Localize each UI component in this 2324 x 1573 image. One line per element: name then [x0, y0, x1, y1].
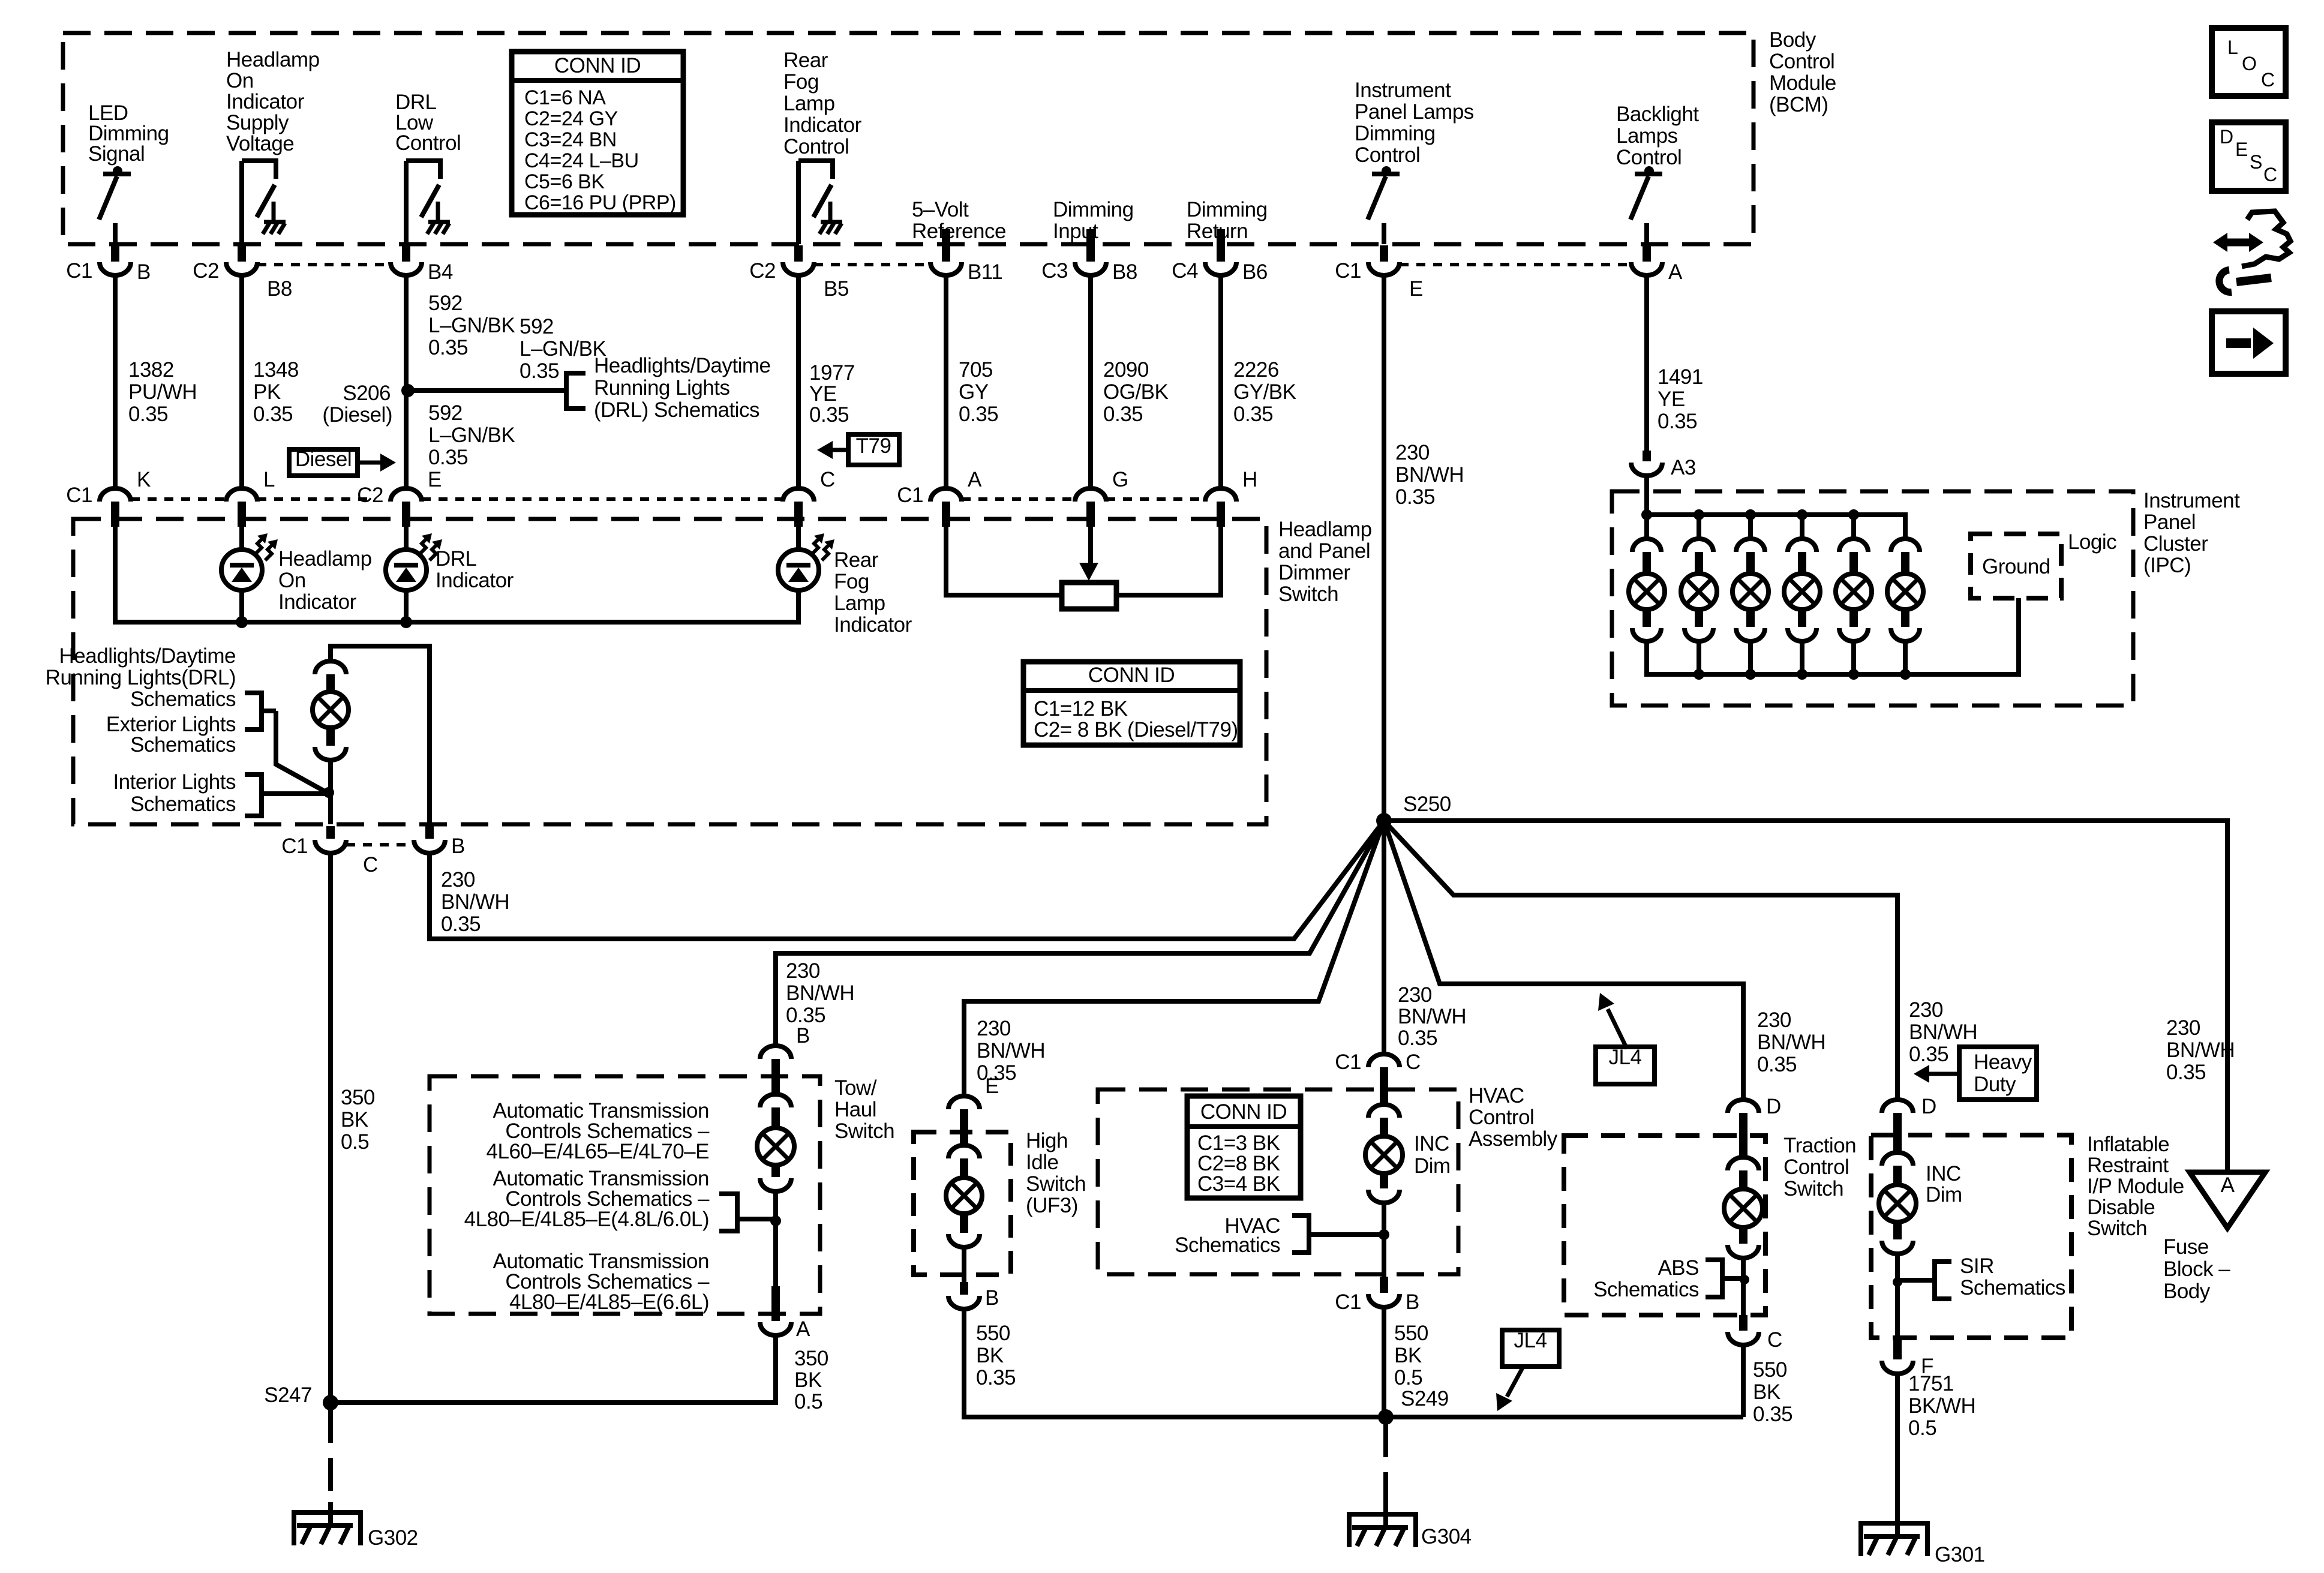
junction dot top bus: [1694, 509, 1704, 520]
svg-text:B4: B4: [428, 260, 453, 284]
wire to C: [1741, 1258, 1746, 1315]
svg-text:0.35: 0.35: [1909, 1043, 1948, 1066]
connector H: [1205, 488, 1236, 502]
connector G: [1075, 488, 1106, 502]
wire 350 BK 0.5 to S247: [328, 854, 333, 1403]
svg-text:H: H: [1242, 468, 1257, 491]
svg-text:B8: B8: [1112, 260, 1137, 284]
svg-text:B6: B6: [1242, 260, 1268, 284]
wire 230 BN/WH dimmer B to S250: [430, 821, 1384, 939]
junction dot top bus: [1797, 509, 1807, 520]
svg-text:Body: Body: [2163, 1280, 2211, 1303]
svg-text:E: E: [2235, 139, 2248, 160]
svg-text:Switch: Switch: [1026, 1172, 1086, 1196]
bracket SIR schematics: [1935, 1262, 1951, 1299]
svg-text:(BCM): (BCM): [1769, 93, 1828, 116]
IPC lamp column 1: [1644, 515, 1649, 539]
svg-text:C: C: [2261, 69, 2275, 91]
svg-text:B: B: [1406, 1290, 1419, 1314]
wire S206 to DRL schematics: [408, 388, 566, 393]
svg-text:Backlight: Backlight: [1616, 103, 1699, 126]
BCM output driver LED Dimming Signal: [103, 172, 131, 176]
svg-text:C1: C1: [897, 484, 923, 507]
wrench icon: [2236, 278, 2271, 282]
svg-text:Inflatable: Inflatable: [2087, 1133, 2169, 1156]
junction dot bottom bus: [1745, 669, 1756, 680]
wire A to S247 bus: [331, 1335, 776, 1403]
svg-text:BN/WH: BN/WH: [786, 981, 854, 1005]
junction dot top bus: [1745, 509, 1756, 520]
svg-text:2090: 2090: [1103, 358, 1149, 382]
traction lamp: [1724, 1189, 1762, 1227]
svg-text:Headlamp: Headlamp: [278, 547, 372, 571]
svg-text:HVAC: HVAC: [1469, 1084, 1524, 1107]
svg-text:D: D: [2220, 126, 2233, 148]
Heavy Duty callout: [1959, 1047, 2037, 1100]
Logic Ground dashed box: [1971, 534, 2061, 598]
svg-text:Control: Control: [1355, 143, 1420, 167]
connector C1-E: [1380, 245, 1388, 262]
wire S250 to fuse block: [1384, 821, 2227, 1172]
IR INC Dim lamp: [1879, 1185, 1916, 1222]
svg-text:Reference: Reference: [912, 220, 1006, 243]
svg-text:0.35: 0.35: [1658, 410, 1697, 433]
svg-text:S249: S249: [1401, 1387, 1449, 1410]
wire 5-volt ref col: [944, 275, 948, 488]
LED DRL Indicator: [404, 527, 409, 550]
svg-text:INC: INC: [1414, 1132, 1449, 1155]
svg-text:Body: Body: [1769, 28, 1816, 52]
svg-text:0.35: 0.35: [976, 1366, 1016, 1389]
svg-text:L: L: [2227, 37, 2238, 58]
connector B (high idle): [960, 1282, 968, 1295]
svg-text:C3=4 BK: C3=4 BK: [1197, 1172, 1280, 1196]
Headlamp and Panel Dimmer Switch dashed box: [73, 519, 1266, 824]
svg-text:592: 592: [428, 292, 463, 315]
Body Control Module (BCM) dashed box: [63, 33, 1753, 244]
svg-text:Lamps: Lamps: [1616, 124, 1678, 148]
Inflatable Restraint switch dashed box: [1871, 1135, 2071, 1338]
junction dot bottom bus: [1694, 669, 1704, 680]
wire to junction: [276, 711, 327, 792]
panel dimmer illumination lamp: [313, 692, 349, 728]
svg-text:Instrument: Instrument: [2143, 489, 2240, 512]
svg-text:0.35: 0.35: [520, 359, 559, 383]
connector C1-B (HVAC): [1380, 1277, 1388, 1293]
IPC top bus: [1647, 515, 1905, 539]
connector C1-C (dimmer out): [326, 826, 335, 839]
wire IP lamps dimming to S250: [1382, 275, 1386, 821]
svg-text:BN/WH: BN/WH: [977, 1039, 1045, 1062]
svg-text:BN/WH: BN/WH: [1909, 1020, 1977, 1044]
LED return bus: [115, 527, 798, 622]
svg-text:0.5: 0.5: [1908, 1416, 1936, 1440]
splice S206: [401, 384, 415, 397]
connector C1-B (LED dimming): [111, 245, 119, 262]
svg-text:0.35: 0.35: [253, 403, 293, 426]
svg-text:Dimming: Dimming: [1187, 198, 1268, 221]
svg-text:Schematics: Schematics: [1593, 1278, 1699, 1301]
junction dot top bus: [1641, 509, 1652, 520]
svg-text:B: B: [985, 1286, 999, 1310]
wire S250 to HVAC C: [1382, 821, 1386, 1054]
svg-text:BN/WH: BN/WH: [441, 890, 509, 914]
svg-text:Block –: Block –: [2163, 1257, 2230, 1281]
ground G301: [1858, 1521, 1863, 1556]
wire to B: [1382, 1203, 1386, 1277]
svg-text:YE: YE: [1658, 388, 1685, 411]
svg-text:C5=6 BK: C5=6 BK: [524, 170, 605, 193]
svg-text:0.35: 0.35: [1753, 1403, 1792, 1426]
connector C1-C (HVAC): [1368, 1054, 1400, 1067]
svg-text:C3: C3: [1041, 259, 1068, 283]
svg-text:CONN ID: CONN ID: [554, 54, 641, 77]
svg-text:C1=12 BK: C1=12 BK: [1034, 697, 1128, 721]
svg-text:0.35: 0.35: [1233, 403, 1273, 426]
dashed wire S247 to G302: [328, 1410, 333, 1507]
svg-text:Schematics: Schematics: [1175, 1233, 1280, 1257]
svg-text:G304: G304: [1421, 1525, 1472, 1548]
junction dot top bus: [1848, 509, 1859, 520]
svg-text:Rear: Rear: [783, 49, 828, 72]
dimmer rheostat wire right: [1116, 527, 1221, 595]
wire C to S249 bus: [1741, 1346, 1746, 1417]
junction dot: [236, 616, 248, 628]
ground symbol inside BCM at Rear Fog Lamp Indicator Control: [828, 202, 833, 221]
svg-text:C3=24 BN: C3=24 BN: [524, 128, 617, 151]
svg-text:Schematics: Schematics: [1960, 1276, 2065, 1299]
svg-text:Dimming: Dimming: [1355, 122, 1436, 145]
wire F to G301: [1895, 1374, 1900, 1513]
svg-text:Switch: Switch: [834, 1119, 894, 1143]
svg-text:Indicator: Indicator: [226, 90, 305, 113]
svg-text:0.35: 0.35: [809, 403, 849, 427]
svg-text:Assembly: Assembly: [1469, 1127, 1558, 1151]
svg-text:Fog: Fog: [834, 570, 869, 593]
svg-text:Running Lights: Running Lights: [594, 376, 730, 400]
svg-text:SIR: SIR: [1960, 1254, 1994, 1278]
BCM output driver Headlamp On Indicator Supply Voltage: [239, 161, 244, 244]
BCM output driver Instrument Panel Lamps Dimming Control: [1372, 172, 1400, 176]
high idle lamp: [946, 1178, 982, 1214]
svg-text:A: A: [1668, 260, 1683, 284]
svg-text:4L80–E/4L85–E(4.8L/6.0L): 4L80–E/4L85–E(4.8L/6.0L): [464, 1208, 709, 1231]
bracket DRL schematics: [566, 373, 585, 409]
svg-text:C: C: [820, 468, 835, 491]
wire B to S249: [1382, 1308, 1386, 1417]
inline connector: [1728, 1157, 1759, 1170]
svg-text:T79: T79: [856, 434, 891, 458]
svg-text:Voltage: Voltage: [226, 132, 294, 155]
LED Rear Fog Lamp Indicator: [796, 527, 801, 550]
Tow/Haul Switch dashed box: [430, 1076, 820, 1314]
svg-text:Indicator: Indicator: [278, 590, 357, 614]
svg-text:550: 550: [1394, 1322, 1428, 1345]
svg-text:(Diesel): (Diesel): [322, 403, 392, 427]
svg-text:Indicator: Indicator: [436, 569, 514, 592]
svg-text:Module: Module: [1769, 71, 1836, 95]
HVAC INC Dim lamp: [1365, 1136, 1403, 1173]
inline connector below panel lamp: [326, 728, 335, 746]
svg-text:B: B: [796, 1024, 810, 1047]
svg-text:S247: S247: [264, 1383, 312, 1407]
svg-text:E: E: [985, 1074, 999, 1098]
svg-text:230: 230: [1398, 983, 1432, 1007]
svg-text:L: L: [263, 468, 275, 491]
svg-text:1751: 1751: [1908, 1372, 1954, 1395]
DESC icon box: [2212, 122, 2286, 191]
connector B (tow/haul): [760, 1046, 791, 1059]
svg-text:0.35: 0.35: [128, 403, 168, 426]
inline connector: [948, 1145, 980, 1158]
wire lamp to C1-C: [328, 760, 333, 824]
double arrow icon: [2223, 239, 2253, 247]
svg-text:Indicator: Indicator: [834, 613, 912, 637]
connector B (dimmer out): [425, 826, 434, 839]
CONN ID table (HVAC): [1187, 1096, 1301, 1198]
wire A3 to IPC: [1644, 476, 1649, 515]
svg-text:GY: GY: [959, 380, 989, 404]
inline connector: [1739, 1227, 1747, 1244]
svg-text:G302: G302: [368, 1526, 418, 1550]
svg-text:BN/WH: BN/WH: [1757, 1031, 1825, 1054]
inline connector: [1368, 1104, 1400, 1118]
svg-text:C6=16 PU (PRP): C6=16 PU (PRP): [524, 191, 676, 214]
connector C2-E: [391, 488, 422, 502]
wire B to S249 bus: [964, 1310, 1743, 1417]
connector C4-B6: [1217, 229, 1225, 262]
bracket interior lights: [245, 775, 262, 816]
Diesel callout box: [289, 449, 358, 476]
svg-text:B: B: [137, 260, 151, 284]
svg-text:Cluster: Cluster: [2143, 532, 2208, 556]
svg-text:A: A: [796, 1317, 810, 1341]
svg-text:Haul: Haul: [834, 1098, 876, 1121]
svg-text:C1: C1: [66, 484, 92, 507]
svg-text:550: 550: [976, 1322, 1010, 1345]
svg-text:Ground: Ground: [1982, 555, 2050, 578]
inline connector: [760, 1094, 791, 1107]
svg-text:1348: 1348: [253, 358, 299, 382]
JL4 callout 2: [1502, 1330, 1559, 1367]
LED Headlamp On Indicator: [239, 527, 244, 550]
svg-text:D: D: [1921, 1095, 1936, 1118]
connector C1-K: [100, 488, 131, 502]
svg-text:C1: C1: [1335, 1050, 1361, 1074]
svg-text:Schematics: Schematics: [130, 688, 236, 711]
connector A3: [1643, 451, 1651, 461]
inline connector: [1882, 1152, 1913, 1166]
svg-text:Switch: Switch: [2087, 1217, 2147, 1240]
svg-text:C1: C1: [1335, 259, 1361, 283]
junction dot: [1740, 1275, 1749, 1284]
svg-text:Control: Control: [783, 135, 849, 158]
svg-text:Control: Control: [1469, 1106, 1534, 1129]
svg-text:YE: YE: [809, 382, 837, 406]
connector D (IR): [1882, 1100, 1913, 1113]
svg-text:PU/WH: PU/WH: [128, 380, 197, 404]
svg-text:C4: C4: [1172, 259, 1198, 283]
svg-text:E: E: [428, 468, 442, 491]
wire S250 to Inflatable Restraint D: [1384, 821, 1897, 1100]
svg-text:Restraint: Restraint: [2087, 1154, 2169, 1177]
dashed wire S249 to G304: [1383, 1424, 1388, 1507]
svg-text:Signal: Signal: [88, 142, 145, 166]
inline connector: [1893, 1222, 1902, 1239]
svg-text:B11: B11: [968, 260, 1002, 284]
svg-text:INC: INC: [1926, 1162, 1961, 1185]
svg-text:JL4: JL4: [1514, 1329, 1547, 1352]
panel lamp feed inverted-U: [331, 646, 430, 824]
svg-text:0.5: 0.5: [341, 1130, 369, 1154]
svg-text:B8: B8: [267, 277, 292, 301]
wire S250 to Traction D: [1384, 821, 1743, 1100]
svg-text:C1: C1: [1335, 1290, 1361, 1314]
svg-text:592: 592: [428, 401, 463, 425]
connector D (traction): [1728, 1100, 1759, 1113]
wire LED dimming signal col: [113, 275, 118, 488]
svg-text:Traction: Traction: [1783, 1134, 1856, 1157]
connector C1-A: [930, 488, 962, 502]
svg-text:0.35: 0.35: [428, 336, 468, 359]
svg-text:230: 230: [441, 868, 475, 891]
junction dot bottom bus: [1900, 669, 1911, 680]
tow/haul lamp: [757, 1128, 794, 1165]
svg-text:Dim: Dim: [1926, 1183, 1962, 1206]
svg-text:C: C: [363, 853, 378, 876]
connector A (backlight): [1643, 245, 1651, 262]
svg-text:0.35: 0.35: [959, 403, 998, 426]
wire to F: [1895, 1254, 1900, 1338]
connector E (high idle): [948, 1096, 980, 1109]
inline connector: [1380, 1173, 1388, 1188]
svg-text:BK: BK: [1394, 1344, 1422, 1367]
LOC icon box: [2212, 28, 2286, 96]
svg-text:0.35: 0.35: [428, 446, 468, 469]
connector B11: [942, 229, 950, 262]
dimmer rheostat resistor: [1062, 583, 1116, 609]
svg-text:Lamp: Lamp: [834, 592, 885, 615]
svg-text:Tow/: Tow/: [834, 1076, 877, 1100]
HVAC Control Assembly dashed box: [1098, 1089, 1458, 1274]
svg-text:On: On: [278, 569, 306, 592]
svg-text:2226: 2226: [1233, 358, 1279, 382]
High Idle Switch dashed box: [914, 1132, 1011, 1275]
svg-text:C: C: [2263, 164, 2277, 185]
svg-text:Dimmer: Dimmer: [1278, 561, 1350, 584]
inline connector above panel lamp: [315, 661, 346, 674]
IPC lamp column 5: [1851, 515, 1856, 539]
svg-text:230: 230: [1909, 998, 1943, 1022]
svg-text:DRL: DRL: [436, 547, 477, 571]
connector L: [226, 488, 257, 502]
splice S247: [323, 1395, 338, 1410]
svg-text:C2: C2: [749, 259, 776, 283]
svg-text:PK: PK: [253, 380, 281, 404]
svg-text:C2= 8 BK (Diesel/T79): C2= 8 BK (Diesel/T79): [1034, 718, 1238, 742]
svg-text:L–GN/BK: L–GN/BK: [428, 424, 515, 447]
ground G302: [292, 1511, 296, 1545]
svg-text:Rear: Rear: [834, 548, 879, 572]
T79 callout box: [848, 434, 899, 465]
svg-text:C1: C1: [66, 259, 92, 283]
dimmer rheostat wire left: [946, 527, 1062, 595]
svg-text:Dim: Dim: [1414, 1154, 1451, 1178]
svg-text:Control: Control: [395, 131, 461, 155]
svg-text:D: D: [1766, 1095, 1781, 1118]
svg-text:(DRL) Schematics: (DRL) Schematics: [594, 398, 759, 422]
svg-text:0.5: 0.5: [1394, 1366, 1422, 1389]
svg-text:(IPC): (IPC): [2143, 554, 2191, 577]
IPC bottom bus: [1647, 598, 2019, 674]
svg-text:Running Lights(DRL): Running Lights(DRL): [46, 666, 236, 689]
CONN ID table (dimmer switch): [1023, 662, 1240, 745]
bracket transmission schematics: [719, 1194, 737, 1231]
svg-text:Headlamp: Headlamp: [226, 48, 320, 71]
svg-text:BK: BK: [794, 1368, 822, 1392]
svg-text:0.35: 0.35: [1103, 403, 1143, 426]
connector C3-B8: [1086, 229, 1095, 262]
svg-text:Duty: Duty: [1974, 1073, 2016, 1096]
svg-text:4L60–E/4L65–E/4L70–E: 4L60–E/4L65–E/4L70–E: [487, 1140, 709, 1163]
svg-text:4L80–E/4L85–E(6.6L): 4L80–E/4L85–E(6.6L): [509, 1290, 709, 1314]
Instrument Panel Cluster dashed box: [1612, 491, 2133, 706]
svg-text:O: O: [2242, 53, 2256, 74]
svg-text:Headlights/Daytime: Headlights/Daytime: [594, 354, 770, 377]
vehicle icon: [2242, 211, 2290, 266]
dimmer wiper arrow: [1088, 527, 1093, 564]
svg-text:Switch: Switch: [1278, 583, 1338, 606]
junction dot bottom bus: [1848, 669, 1859, 680]
svg-text:Supply: Supply: [226, 111, 289, 134]
IPC lamp column 3: [1748, 515, 1753, 539]
svg-text:GY/BK: GY/BK: [1233, 380, 1296, 404]
wire dimming input col: [1088, 275, 1093, 488]
svg-text:0.35: 0.35: [1398, 1026, 1437, 1050]
svg-text:G301: G301: [1935, 1543, 1985, 1566]
svg-text:350: 350: [794, 1347, 828, 1370]
svg-text:B5: B5: [824, 277, 849, 301]
svg-text:S: S: [2250, 151, 2262, 173]
wire DRL low control col: [404, 275, 409, 488]
svg-text:230: 230: [1757, 1008, 1791, 1032]
svg-text:C: C: [1767, 1328, 1782, 1352]
svg-text:230: 230: [2166, 1016, 2200, 1040]
svg-text:(UF3): (UF3): [1026, 1194, 1078, 1217]
junction dot: [1893, 1277, 1902, 1287]
ground G304: [1347, 1512, 1352, 1547]
svg-text:L–GN/BK: L–GN/BK: [428, 314, 515, 337]
junction dot: [1379, 1229, 1389, 1240]
svg-text:Lamp: Lamp: [783, 92, 835, 115]
svg-text:0.35: 0.35: [1757, 1053, 1797, 1076]
JL4 callout 1: [1596, 1047, 1655, 1084]
connector F (IR): [1893, 1338, 1902, 1359]
wire S250 to High Idle E: [964, 821, 1384, 1096]
svg-text:ABS: ABS: [1658, 1256, 1699, 1280]
svg-text:BK: BK: [341, 1108, 368, 1131]
svg-text:Disable: Disable: [2087, 1196, 2155, 1219]
svg-text:C1=6 NA: C1=6 NA: [524, 86, 606, 109]
svg-text:B: B: [451, 834, 465, 858]
splice S249: [1378, 1409, 1394, 1425]
svg-text:1977: 1977: [809, 361, 855, 385]
connector C2-B8: [238, 245, 246, 262]
svg-text:Control: Control: [1783, 1155, 1849, 1179]
wire dimming return col: [1218, 275, 1223, 488]
svg-text:E: E: [1409, 277, 1423, 301]
wire to A: [773, 1191, 778, 1286]
